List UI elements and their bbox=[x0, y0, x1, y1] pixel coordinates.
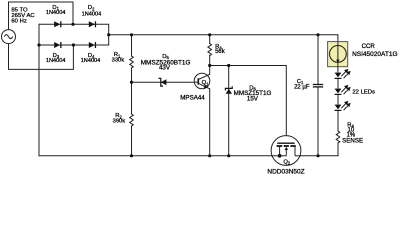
svg-text:Q1: Q1 bbox=[202, 80, 210, 86]
svg-text:1N4004: 1N4004 bbox=[81, 58, 101, 64]
svg-text:MPSA44: MPSA44 bbox=[180, 94, 205, 101]
svg-text:56k: 56k bbox=[215, 49, 226, 55]
svg-text:330k: 330k bbox=[112, 57, 125, 63]
svg-text:NDD03N50Z: NDD03N50Z bbox=[267, 168, 304, 175]
svg-text:15V: 15V bbox=[247, 95, 259, 102]
svg-text:43V: 43V bbox=[159, 64, 171, 71]
svg-text:SENSE: SENSE bbox=[342, 137, 363, 144]
svg-text:Q2: Q2 bbox=[283, 159, 291, 165]
svg-text:NSI45020AT1G: NSI45020AT1G bbox=[352, 51, 397, 58]
svg-text:22 µF: 22 µF bbox=[294, 84, 310, 90]
svg-text:1N4004: 1N4004 bbox=[46, 58, 66, 64]
svg-text:1N4004: 1N4004 bbox=[82, 11, 102, 17]
svg-text:CCR: CCR bbox=[362, 43, 376, 50]
svg-text:390k: 390k bbox=[113, 118, 126, 124]
svg-text:60 Hz: 60 Hz bbox=[11, 18, 26, 24]
svg-text:22 LEDs: 22 LEDs bbox=[352, 90, 375, 96]
svg-text:1N4004: 1N4004 bbox=[46, 10, 66, 16]
